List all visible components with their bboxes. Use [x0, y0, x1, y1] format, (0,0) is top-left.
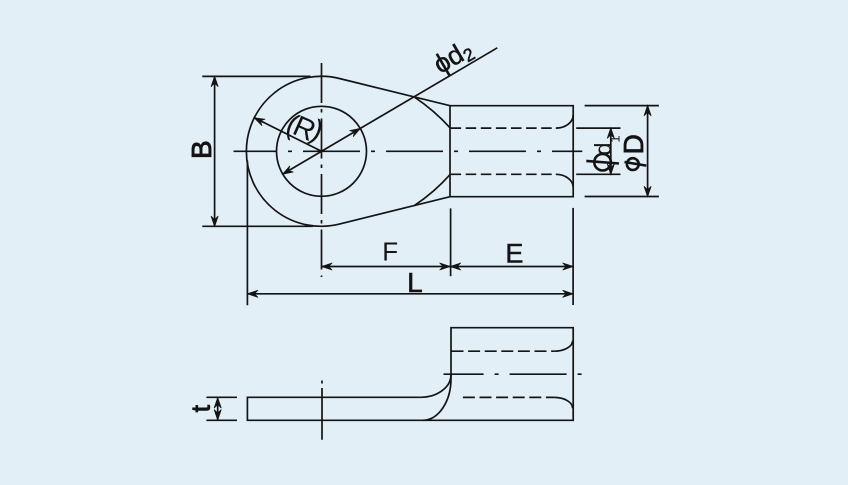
label phi-d1: phi symbol [594, 154, 611, 171]
neck flare curve top [414, 97, 450, 128]
phi-D extension line bottom [585, 196, 659, 198]
dimension t extension line bottom [206, 419, 237, 421]
hidden wire-hole line top (dashed) [451, 127, 556, 129]
phi-D arrow top [644, 105, 651, 116]
L arrow right [563, 290, 574, 297]
E arrow right [563, 263, 574, 270]
dimension phi-D line [647, 106, 649, 197]
ring terminal top view: outer teardrop contour [246, 76, 573, 226]
phi-D arrow bottom [644, 186, 651, 197]
hidden wire-hole line bottom (dashed) [451, 173, 556, 175]
side view vertical centerline [321, 381, 323, 440]
dimension F line [322, 266, 450, 268]
B arrow top [211, 76, 218, 87]
extension line below barrel left edge [450, 208, 452, 276]
horizontal centerline (top view) [234, 150, 583, 152]
svg-text:F: F [382, 236, 398, 266]
bell-mouth curve top [556, 115, 573, 128]
radius leader line (R) [254, 118, 321, 152]
side view horizontal centerline [444, 373, 583, 375]
neck flare curve bottom [414, 174, 450, 206]
t arrow top [214, 398, 221, 409]
(R) arrowhead at outer contour [254, 118, 265, 126]
label phi-D: phi symbol [627, 158, 639, 170]
dimension phi-d2 leader line [283, 48, 498, 174]
phi-D extension line top [585, 105, 659, 107]
phi-d2 arrow upper-right [350, 128, 361, 137]
dimension B extension line bottom [202, 225, 313, 227]
F arrow right [440, 263, 451, 270]
t arrow bottom [214, 410, 221, 421]
svg-text:L: L [407, 267, 423, 298]
side view bell-mouth bottom [554, 397, 572, 408]
svg-text:(R): (R) [280, 107, 327, 150]
phi-d2 arrow lower-left [283, 166, 294, 175]
F arrow left [322, 263, 333, 270]
side view hidden hole line bottom [463, 396, 554, 398]
B arrow bottom [211, 216, 218, 227]
dimension B extension line top [202, 75, 310, 77]
svg-text:B: B [186, 140, 217, 159]
L arrow left [247, 290, 258, 297]
dimension L line [247, 293, 573, 295]
phi-d1 extension line bottom [576, 173, 620, 175]
phi-d1 extension line top [576, 127, 620, 129]
stud hole inner circle [277, 106, 367, 196]
phi-d1 arrow top [607, 128, 614, 139]
svg-text:t: t [186, 404, 216, 412]
extension line at ring left edge [246, 161, 248, 306]
E arrow left [450, 263, 461, 270]
barrel left edge (top view) [449, 106, 451, 197]
bell-mouth curve bottom [556, 174, 573, 187]
phi-d1 arrow bottom [607, 164, 614, 175]
dimension B line [214, 76, 216, 226]
dimension t extension line top [206, 396, 237, 398]
vertical centerline (top view), extends to F dimension [321, 63, 323, 277]
svg-text:E: E [505, 238, 523, 268]
side view outline: tongue strip and barrel [247, 328, 573, 421]
svg-text:D: D [618, 134, 649, 154]
side view hidden hole line top [452, 350, 555, 352]
dimension t line [217, 397, 219, 420]
extension line below barrel right edge [572, 208, 574, 305]
dimension E line [450, 266, 573, 268]
dimension phi-d1 line [610, 128, 612, 174]
side view inner bend curve [420, 375, 451, 398]
side view bell-mouth top [554, 341, 572, 352]
side view outer bend curve [423, 378, 451, 420]
